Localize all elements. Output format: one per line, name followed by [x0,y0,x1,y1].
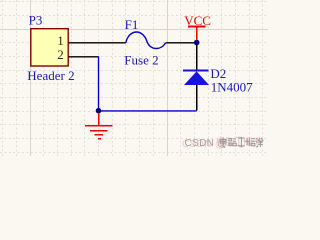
F1 designator label [125,17,139,32]
VCC net label [184,13,211,28]
wire (vertical from pin 2 down) [98,56,100,110]
Fuse 2 comment label [124,53,158,68]
fuse F1 element (sine body) [126,32,166,49]
connector P3 body [31,29,68,66]
ground symbol [85,113,113,139]
P3 designator label [29,13,43,28]
pin line below diode D2 [196,85,198,111]
wire (bottom horizontal run) [99,110,197,112]
svg-text:Fuse 2: Fuse 2 [124,53,158,68]
svg-text:Header 2: Header 2 [27,68,74,83]
watermark [182,136,263,150]
Header 2 comment label [27,68,74,83]
diode D2 cathode bar [183,69,209,71]
pin 2 line of P3 / wire to corner [68,56,98,58]
pin 1 line of P3 / wire to fuse F1 [68,42,126,44]
junction node at ground corner [96,108,102,114]
D2 designator label [210,66,226,81]
wire (fuse to VCC node) [166,42,197,44]
svg-text:1N4007: 1N4007 [211,79,253,94]
diode D2 triangle (anode) [184,71,209,85]
svg-text:1: 1 [57,33,64,48]
1N4007 value label [211,79,253,94]
svg-text:2: 2 [57,47,64,62]
power symbol VCC (stem and bar) [188,26,206,40]
pin number 1 [57,33,64,48]
pin number 2 [57,47,64,62]
svg-text:VCC: VCC [184,13,211,28]
svg-text:F1: F1 [125,17,139,32]
svg-text:P3: P3 [29,13,43,28]
junction node at VCC [194,40,200,46]
wire (VCC node down to diode cathode) [196,45,198,71]
